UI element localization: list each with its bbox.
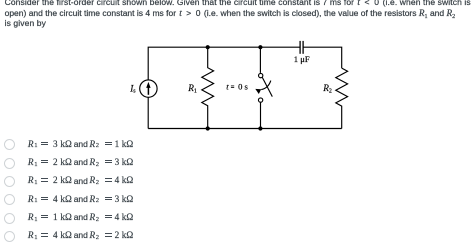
wire: bottom rail (148, 128, 342, 130)
option 5 (0, 211, 474, 227)
capacitor right plate (302, 41, 304, 54)
svg-text:0 s: 0 s (238, 82, 248, 92)
switch closing arc (261, 81, 271, 90)
node dot bottom switch (258, 126, 262, 130)
node dot top switch (258, 45, 262, 49)
switch top terminal circle (259, 73, 263, 77)
switch top lead (259, 47, 261, 73)
svg-text:t: t (226, 82, 229, 92)
switch bottom terminal circle (258, 98, 262, 102)
capacitor left plate (299, 41, 301, 54)
svg-text:1 μF: 1 μF (294, 54, 310, 64)
wire: left branch lower lead (147, 97, 149, 128)
switch arc arrowhead (255, 89, 261, 94)
svg-text:R1: R1 (187, 83, 197, 94)
question text line 2 (5, 8, 456, 21)
node dot bottom R1 (206, 126, 210, 130)
option 2 (0, 156, 474, 172)
svg-text:Is: Is (129, 83, 136, 94)
svg-text:R2: R2 (322, 83, 332, 94)
wire: top-left from source corner to capacitor left plate (148, 47, 299, 80)
option 6 (0, 229, 474, 245)
option 3 (0, 174, 474, 190)
wire: capacitor right plate to top-right corner down to R2 (303, 47, 341, 68)
resistor R2 zigzag (336, 68, 348, 128)
question text line 1 (5, 0, 471, 8)
switch blade (262, 77, 272, 96)
node dot top R1 (206, 45, 210, 49)
option 1 (0, 138, 474, 154)
question text line 3 (5, 18, 46, 29)
switch bottom lead (260, 103, 262, 129)
current source arrow (146, 82, 150, 95)
resistor R1 zigzag (202, 47, 214, 128)
current source Is circle (140, 80, 157, 97)
option 4 (0, 193, 474, 209)
